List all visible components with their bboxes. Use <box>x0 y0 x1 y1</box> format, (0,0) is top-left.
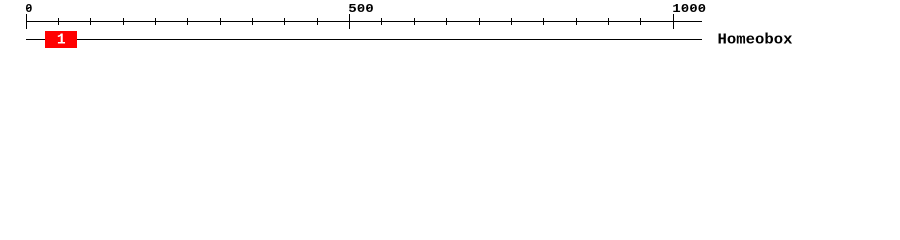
minor tick 150 <box>123 18 124 25</box>
major tick 500 <box>349 14 350 29</box>
minor tick 600 <box>414 18 415 25</box>
major tick 1000 <box>673 14 674 29</box>
background <box>0 0 900 58</box>
minor tick 850 <box>576 18 577 25</box>
minor tick 300 <box>220 18 221 25</box>
minor tick 350 <box>252 18 253 25</box>
minor tick 700 <box>479 18 480 25</box>
minor tick 50 <box>58 18 59 25</box>
minor tick 450 <box>317 18 318 25</box>
svg-text:1: 1 <box>57 33 66 49</box>
minor tick 100 <box>90 18 91 25</box>
svg-text:Homeobox: Homeobox <box>718 33 793 49</box>
minor tick 200 <box>155 18 156 25</box>
minor tick 800 <box>543 18 544 25</box>
minor tick 400 <box>284 18 285 25</box>
major tick 0 <box>26 14 27 29</box>
minor tick 950 <box>640 18 641 25</box>
minor tick 750 <box>511 18 512 25</box>
minor tick 550 <box>381 18 382 25</box>
minor tick 250 <box>187 18 188 25</box>
sequence line <box>26 39 702 40</box>
minor tick 900 <box>608 18 609 25</box>
minor tick 650 <box>446 18 447 25</box>
domain box 1 (red) <box>45 31 77 48</box>
ruler axis line <box>26 21 702 22</box>
svg-text:500: 500 <box>348 2 374 16</box>
